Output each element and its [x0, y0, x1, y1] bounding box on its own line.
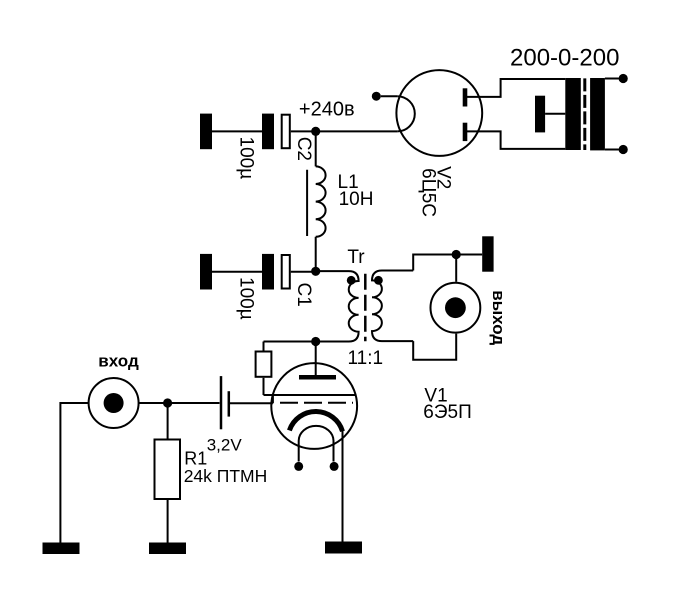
svg-text:11:1: 11:1: [348, 348, 384, 369]
node C junction dot (Tr primary bottom / V1 anode): [311, 337, 320, 346]
svg-text:Tr: Tr: [347, 247, 365, 268]
wire ground to C2: [212, 130, 262, 132]
transformer Tr secondary winding: [372, 271, 413, 342]
connector выход outer circle: [431, 283, 481, 333]
transformer T1 secondary bar: [590, 78, 605, 150]
tube V1 cathode arc (thick): [289, 412, 342, 432]
inductor L1 top lead: [315, 131, 317, 166]
tube V1 envelope: [271, 363, 357, 449]
node A junction dot (C1/L1/Tr primary): [311, 267, 320, 276]
svg-text:100µ: 100µ: [235, 137, 256, 180]
tube V1 anode bar: [299, 375, 336, 380]
tube V1 grid tick to bias wire: [272, 395, 274, 403]
svg-text:10H: 10H: [339, 189, 374, 210]
wire C2 to node +240в: [291, 130, 316, 132]
transformer Tr primary winding: [316, 271, 359, 341]
wire V2 anode top to rectifier transformer: [465, 79, 565, 97]
capacitor C1 positive plate: [282, 255, 290, 289]
tube V2 anode bar bottom: [463, 123, 468, 141]
wire Tr secondary top to output node: [413, 255, 456, 271]
ground (output, right): [482, 236, 493, 271]
node D junction dot (input/R1): [163, 398, 172, 407]
connector вход outer circle: [89, 378, 139, 428]
svg-text:выход: выход: [489, 290, 508, 345]
svg-text:200-0-200: 200-0-200: [510, 45, 619, 72]
phase dot secondary: [374, 276, 383, 285]
tube V2 envelope: [396, 70, 482, 156]
wire V1 cathode to ground: [342, 430, 344, 542]
phase dot primary: [347, 276, 356, 285]
terminal dot bottom: [619, 145, 628, 154]
resistor R1 bottom lead: [167, 500, 169, 543]
svg-text:100µ: 100µ: [235, 277, 256, 320]
capacitor C2 negative plate: [262, 114, 274, 150]
svg-text:6Э5П: 6Э5П: [423, 402, 471, 423]
svg-text:3,2V: 3,2V: [207, 436, 243, 455]
transformer T1 core (dashed): [583, 78, 586, 150]
wire V2 anode bottom to rectifier transformer: [465, 131, 565, 149]
capacitor C2 positive plate: [282, 115, 290, 149]
wire ground to C1: [212, 271, 262, 273]
svg-text:вход: вход: [98, 351, 139, 370]
battery GB1 long plate: [220, 376, 223, 429]
wire center tap: [545, 113, 565, 115]
inductor L1 winding: [316, 166, 326, 236]
wire output connector bottom to Tr secondary bottom: [413, 334, 456, 360]
svg-text:24k ПТМН: 24k ПТМН: [184, 466, 268, 486]
wire secondary top terminal: [605, 78, 621, 80]
ground (V1 cathode): [325, 542, 362, 554]
capacitor C1 negative plate: [262, 254, 274, 290]
wire node to V2 cathode: [316, 130, 398, 132]
wire C1 to node A: [291, 271, 316, 273]
resistor R2 body: [256, 352, 272, 377]
transformer T1 primary bar: [565, 78, 581, 150]
inductor L1 core line: [306, 170, 308, 236]
transformer Tr core (dashed): [364, 274, 367, 342]
wire Tr primary bottom to node C: [264, 341, 316, 343]
wire вход pin to battery: [139, 402, 219, 404]
connector выход center pin: [445, 297, 466, 318]
wire heater dot to cathode top: [381, 95, 397, 97]
tube V2 anode bar top: [463, 88, 468, 106]
wire node B to ground bar: [456, 254, 482, 256]
node +240в junction dot: [311, 127, 320, 136]
transformer T1 center tap bar: [535, 96, 545, 133]
node B junction dot (output top): [452, 250, 461, 259]
tube V1 heater arch: [299, 426, 334, 462]
battery GB1 short plate: [228, 391, 231, 416]
resistor R1 body: [155, 440, 181, 500]
svg-text:6Ц5С: 6Ц5С: [417, 168, 438, 217]
tube V1 grid line (solid): [264, 394, 357, 396]
svg-text:C1: C1: [293, 283, 314, 307]
heater terminal dot right: [330, 462, 339, 471]
wire node C down to V1 anode: [315, 342, 317, 376]
ground (R1): [149, 543, 186, 555]
ground (вход): [43, 543, 80, 555]
ground (C2 row, top-left): [200, 114, 212, 150]
wire node D down to R1: [167, 403, 169, 439]
ground (C1 row, mid-left): [200, 254, 212, 290]
resistor R2 bottom lead: [263, 378, 265, 395]
wire node B down to output connector: [455, 255, 457, 282]
heater terminal dot left: [294, 462, 303, 471]
svg-text:C2: C2: [293, 137, 314, 161]
svg-text:+240в: +240в: [299, 98, 355, 120]
heater terminal dot V2: [372, 92, 381, 101]
connector вход center pin: [104, 393, 124, 413]
inductor L1 bottom lead: [315, 237, 317, 271]
tube V1 screen grid (dashed): [280, 402, 353, 404]
wire вход shell to ground: [60, 403, 88, 543]
wire battery to V1 grid: [230, 402, 273, 404]
wire secondary bottom terminal: [605, 149, 621, 151]
tube V2 cathode arc: [397, 96, 415, 131]
resistor R2 (grid leak) top lead: [263, 342, 265, 351]
terminal dot top: [619, 74, 628, 83]
